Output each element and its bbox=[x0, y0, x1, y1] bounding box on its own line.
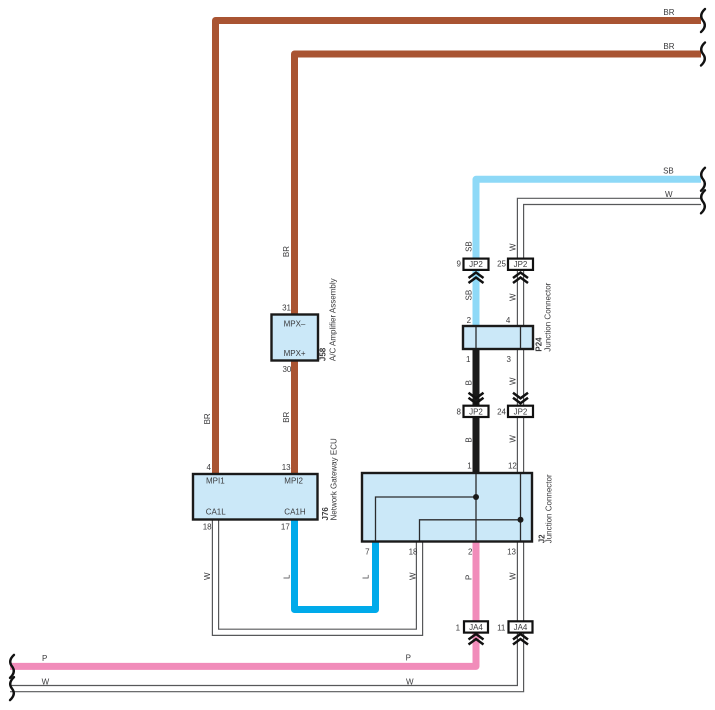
svg-text:1: 1 bbox=[467, 462, 472, 471]
svg-text:W: W bbox=[42, 678, 50, 687]
svg-text:1: 1 bbox=[466, 355, 471, 364]
svg-text:SB: SB bbox=[663, 167, 674, 176]
svg-text:7: 7 bbox=[365, 548, 370, 557]
svg-text:JP2: JP2 bbox=[514, 260, 528, 269]
svg-text:CA1L: CA1L bbox=[206, 508, 227, 517]
svg-text:24: 24 bbox=[497, 408, 506, 417]
svg-text:2: 2 bbox=[468, 548, 473, 557]
svg-text:JA4: JA4 bbox=[469, 623, 483, 632]
svg-text:MPX–: MPX– bbox=[284, 319, 306, 328]
svg-text:B: B bbox=[465, 437, 474, 442]
svg-text:JP2: JP2 bbox=[469, 260, 483, 269]
svg-text:9: 9 bbox=[457, 260, 462, 269]
svg-text:W: W bbox=[509, 377, 518, 385]
svg-text:BR: BR bbox=[663, 8, 674, 17]
svg-text:17: 17 bbox=[281, 523, 290, 532]
svg-text:Junction Connector: Junction Connector bbox=[545, 474, 554, 543]
svg-text:BR: BR bbox=[663, 42, 674, 51]
svg-text:MPI2: MPI2 bbox=[284, 477, 303, 486]
svg-text:13: 13 bbox=[507, 548, 516, 557]
svg-text:BR: BR bbox=[203, 413, 212, 424]
svg-text:Junction Connector: Junction Connector bbox=[543, 282, 552, 351]
svg-text:Network Gateway ECU: Network Gateway ECU bbox=[329, 438, 338, 520]
svg-text:18: 18 bbox=[203, 523, 212, 532]
svg-text:W: W bbox=[665, 190, 673, 199]
svg-text:L: L bbox=[362, 574, 371, 579]
svg-text:25: 25 bbox=[497, 260, 506, 269]
svg-text:4: 4 bbox=[206, 463, 211, 472]
svg-text:W: W bbox=[509, 435, 518, 443]
svg-text:W: W bbox=[509, 572, 518, 580]
svg-text:W: W bbox=[406, 678, 414, 687]
svg-text:W: W bbox=[408, 572, 417, 580]
svg-text:SB: SB bbox=[465, 241, 474, 252]
svg-text:BR: BR bbox=[282, 411, 291, 422]
svg-text:SB: SB bbox=[465, 290, 474, 301]
svg-text:4: 4 bbox=[506, 316, 511, 325]
svg-text:12: 12 bbox=[508, 462, 517, 471]
svg-text:3: 3 bbox=[507, 355, 512, 364]
svg-text:W: W bbox=[203, 572, 212, 580]
svg-text:30: 30 bbox=[282, 365, 291, 374]
svg-text:11: 11 bbox=[497, 624, 506, 633]
svg-text:JA4: JA4 bbox=[514, 623, 528, 632]
svg-text:1: 1 bbox=[456, 624, 461, 633]
svg-text:MPI1: MPI1 bbox=[206, 477, 225, 486]
svg-text:B: B bbox=[465, 380, 474, 385]
svg-text:W: W bbox=[509, 243, 518, 251]
svg-text:P24: P24 bbox=[535, 337, 544, 352]
svg-text:P: P bbox=[42, 654, 47, 663]
svg-text:A/C Amplifier Assembly: A/C Amplifier Assembly bbox=[329, 278, 338, 361]
svg-text:BR: BR bbox=[282, 246, 291, 257]
svg-text:J58: J58 bbox=[319, 347, 328, 361]
svg-text:13: 13 bbox=[282, 463, 291, 472]
svg-text:W: W bbox=[509, 293, 518, 301]
svg-text:CA1H: CA1H bbox=[284, 508, 306, 517]
svg-text:JP2: JP2 bbox=[514, 407, 528, 416]
svg-text:P: P bbox=[406, 654, 411, 663]
svg-text:P: P bbox=[465, 575, 474, 580]
svg-text:2: 2 bbox=[467, 316, 472, 325]
svg-text:JP2: JP2 bbox=[469, 407, 483, 416]
svg-text:MPX+: MPX+ bbox=[284, 349, 306, 358]
svg-text:31: 31 bbox=[282, 303, 291, 312]
svg-text:L: L bbox=[283, 574, 292, 579]
svg-text:18: 18 bbox=[409, 548, 418, 557]
svg-text:8: 8 bbox=[457, 408, 462, 417]
